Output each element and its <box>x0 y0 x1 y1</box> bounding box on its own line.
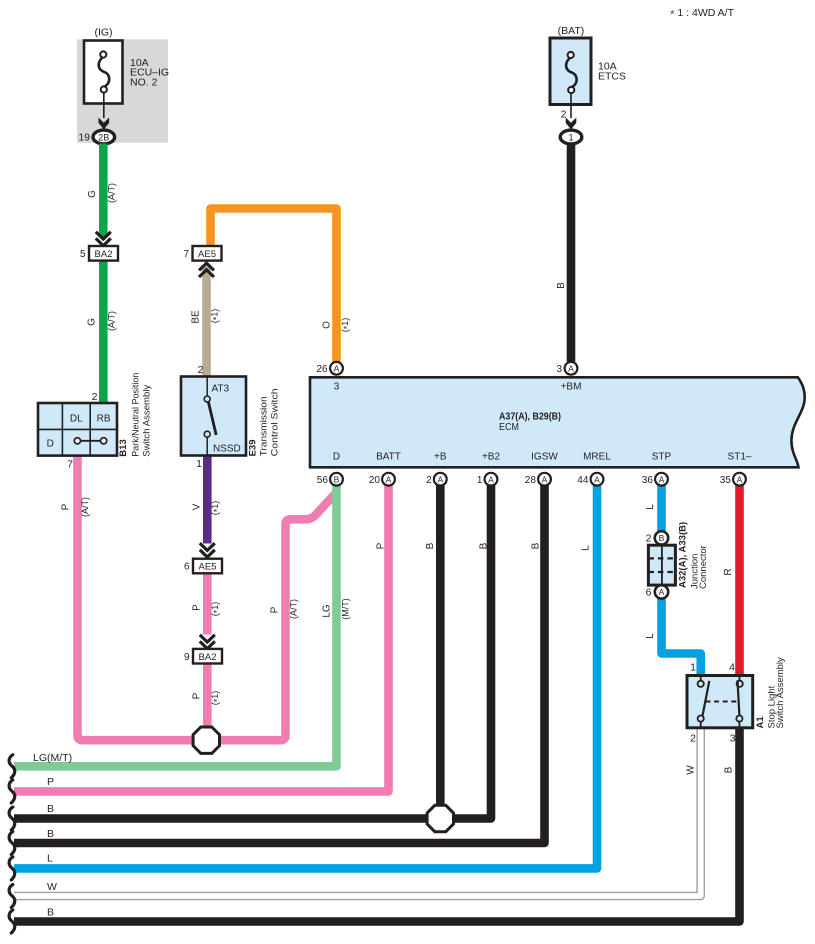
svg-text:B: B <box>334 474 340 484</box>
svg-text:L: L <box>47 853 53 865</box>
svg-text:A: A <box>594 474 600 484</box>
svg-text:1: 1 <box>477 475 483 486</box>
svg-text:A: A <box>437 474 443 484</box>
svg-text:+B: +B <box>434 452 447 463</box>
svg-text:B: B <box>724 766 735 773</box>
svg-text:6: 6 <box>646 587 652 599</box>
svg-text:2: 2 <box>690 733 696 745</box>
svg-text:BA2: BA2 <box>199 652 217 663</box>
svg-text:6: 6 <box>184 562 190 573</box>
svg-text:BA2: BA2 <box>95 249 113 260</box>
svg-text:(A/T): (A/T) <box>80 497 90 517</box>
svg-text:AT3: AT3 <box>212 384 230 395</box>
svg-text:A32(A), A33(B): A32(A), A33(B) <box>678 522 689 588</box>
svg-text:L: L <box>581 545 592 551</box>
svg-text:P: P <box>61 503 72 510</box>
svg-text:A1: A1 <box>755 716 766 729</box>
svg-text:2: 2 <box>646 533 652 545</box>
svg-text:L: L <box>645 504 656 510</box>
svg-text:R: R <box>723 568 734 575</box>
svg-text:A: A <box>542 474 548 484</box>
svg-text:MREL: MREL <box>583 452 611 463</box>
svg-text:(IG): (IG) <box>94 27 112 39</box>
svg-text:2B: 2B <box>98 132 109 142</box>
svg-text:ST1–: ST1– <box>728 452 752 463</box>
svg-text:(A/T): (A/T) <box>289 599 299 619</box>
svg-text:B: B <box>556 282 567 289</box>
svg-text:W: W <box>686 765 697 775</box>
svg-text:B13: B13 <box>118 439 129 456</box>
svg-text:A: A <box>568 363 574 373</box>
svg-text:A: A <box>737 474 743 484</box>
svg-text:Park/Neutral Position: Park/Neutral Position <box>131 373 142 457</box>
svg-text:26: 26 <box>316 364 328 375</box>
svg-text:G: G <box>87 190 98 198</box>
svg-text:NO. 2: NO. 2 <box>130 76 158 88</box>
svg-text:D: D <box>333 452 340 463</box>
svg-text:1: 1 <box>690 662 696 674</box>
svg-text:A: A <box>488 474 494 484</box>
svg-text:P: P <box>47 776 54 788</box>
svg-text:1: 1 <box>568 132 573 142</box>
svg-text:A37(A), B29(B): A37(A), B29(B) <box>499 411 561 422</box>
svg-text:3: 3 <box>334 382 340 393</box>
svg-text:4: 4 <box>729 662 735 674</box>
svg-text:+BM: +BM <box>561 382 582 393</box>
svg-text:L: L <box>645 633 656 639</box>
svg-text:(A/T): (A/T) <box>107 183 117 203</box>
svg-text:LG: LG <box>322 604 333 618</box>
svg-text:7: 7 <box>67 459 73 471</box>
svg-text:36: 36 <box>642 475 654 486</box>
svg-text:2: 2 <box>426 475 432 486</box>
svg-text:P: P <box>376 542 387 549</box>
svg-text:RB: RB <box>97 414 111 425</box>
svg-text:B: B <box>425 542 436 549</box>
svg-text:LG(M/T): LG(M/T) <box>33 752 72 764</box>
svg-text:19: 19 <box>78 132 90 144</box>
svg-text:3: 3 <box>730 733 736 745</box>
svg-text:Connector: Connector <box>698 545 709 589</box>
svg-text:B: B <box>47 907 54 919</box>
svg-text:A: A <box>659 587 665 597</box>
svg-text:BATT: BATT <box>376 452 401 463</box>
svg-text:7: 7 <box>183 249 189 260</box>
svg-text:V: V <box>192 503 203 510</box>
svg-text:IGSW: IGSW <box>531 452 558 463</box>
svg-text:A: A <box>334 363 340 373</box>
svg-text:9: 9 <box>184 652 190 663</box>
svg-text:O: O <box>322 321 333 329</box>
svg-text:56: 56 <box>317 475 329 486</box>
svg-text:D: D <box>47 439 54 450</box>
svg-text:(A/T): (A/T) <box>107 311 117 331</box>
svg-text:(M/T): (M/T) <box>341 598 351 620</box>
svg-text:2: 2 <box>198 364 204 376</box>
svg-text:+B2: +B2 <box>482 452 501 463</box>
svg-text:AE5: AE5 <box>199 562 217 573</box>
svg-text:B: B <box>531 542 542 549</box>
svg-text:DL: DL <box>70 414 83 425</box>
svg-text:Switch Assembly: Switch Assembly <box>775 657 786 729</box>
svg-text:35: 35 <box>720 475 732 486</box>
svg-text:ETCS: ETCS <box>598 70 626 82</box>
svg-text:Switch Assembly: Switch Assembly <box>141 384 152 456</box>
svg-text:Transmission: Transmission <box>259 396 270 456</box>
svg-text:A: A <box>659 474 665 484</box>
svg-text:28: 28 <box>525 475 537 486</box>
svg-text:AE5: AE5 <box>198 249 216 260</box>
svg-text:G: G <box>87 318 98 326</box>
svg-text:(BAT): (BAT) <box>558 25 585 37</box>
svg-text:P: P <box>270 606 281 613</box>
svg-text:A: A <box>386 474 392 484</box>
svg-text:44: 44 <box>577 475 589 486</box>
svg-text:3: 3 <box>556 364 562 375</box>
svg-text:B: B <box>479 542 490 549</box>
svg-text:STP: STP <box>652 452 672 463</box>
svg-text:P: P <box>192 604 203 611</box>
svg-text:B: B <box>47 828 54 840</box>
svg-text:2: 2 <box>92 391 98 403</box>
svg-text:W: W <box>47 881 57 893</box>
svg-text:B: B <box>659 533 665 543</box>
svg-text:5: 5 <box>80 249 86 260</box>
svg-text:E39: E39 <box>247 439 258 456</box>
svg-text:1: 1 <box>196 458 202 470</box>
svg-text:BE: BE <box>191 310 202 324</box>
svg-text:B: B <box>47 803 54 815</box>
svg-text:Control Switch: Control Switch <box>269 388 280 456</box>
svg-text:P: P <box>192 692 203 699</box>
svg-text:NSSD: NSSD <box>213 444 241 455</box>
svg-text:20: 20 <box>369 475 381 486</box>
svg-text:ECM: ECM <box>499 422 519 433</box>
